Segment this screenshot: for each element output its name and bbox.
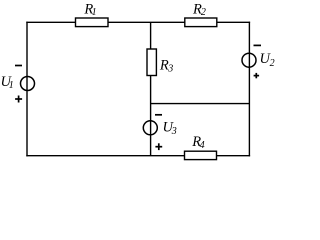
source U3 xyxy=(143,121,157,135)
wire top: node A to node B xyxy=(26,21,250,23)
resistor R1 xyxy=(76,18,109,27)
resistor R2 xyxy=(185,18,217,27)
wire right branch xyxy=(248,22,250,157)
U1 minus polarity xyxy=(15,65,22,67)
svg-text:3: 3 xyxy=(167,64,173,75)
svg-text:2: 2 xyxy=(201,7,206,18)
source U1 xyxy=(21,77,35,91)
source U2 xyxy=(242,53,256,67)
svg-text:4: 4 xyxy=(200,140,205,151)
U3 plus polarity xyxy=(155,146,162,148)
resistor R4 xyxy=(185,151,217,159)
wire bottom xyxy=(26,155,250,157)
svg-text:1: 1 xyxy=(92,7,97,18)
resistor R3 xyxy=(147,49,156,76)
U3 minus polarity xyxy=(155,114,162,116)
U2 minus polarity xyxy=(254,44,262,46)
U2 plus polarity xyxy=(254,75,260,77)
svg-text:3: 3 xyxy=(171,126,177,137)
wire left branch xyxy=(26,22,28,157)
wire middle vertical branch xyxy=(150,22,152,155)
svg-text:1: 1 xyxy=(9,80,14,91)
U1 plus polarity xyxy=(15,98,22,100)
svg-text:2: 2 xyxy=(270,58,275,69)
wire middle horizontal xyxy=(151,103,250,105)
